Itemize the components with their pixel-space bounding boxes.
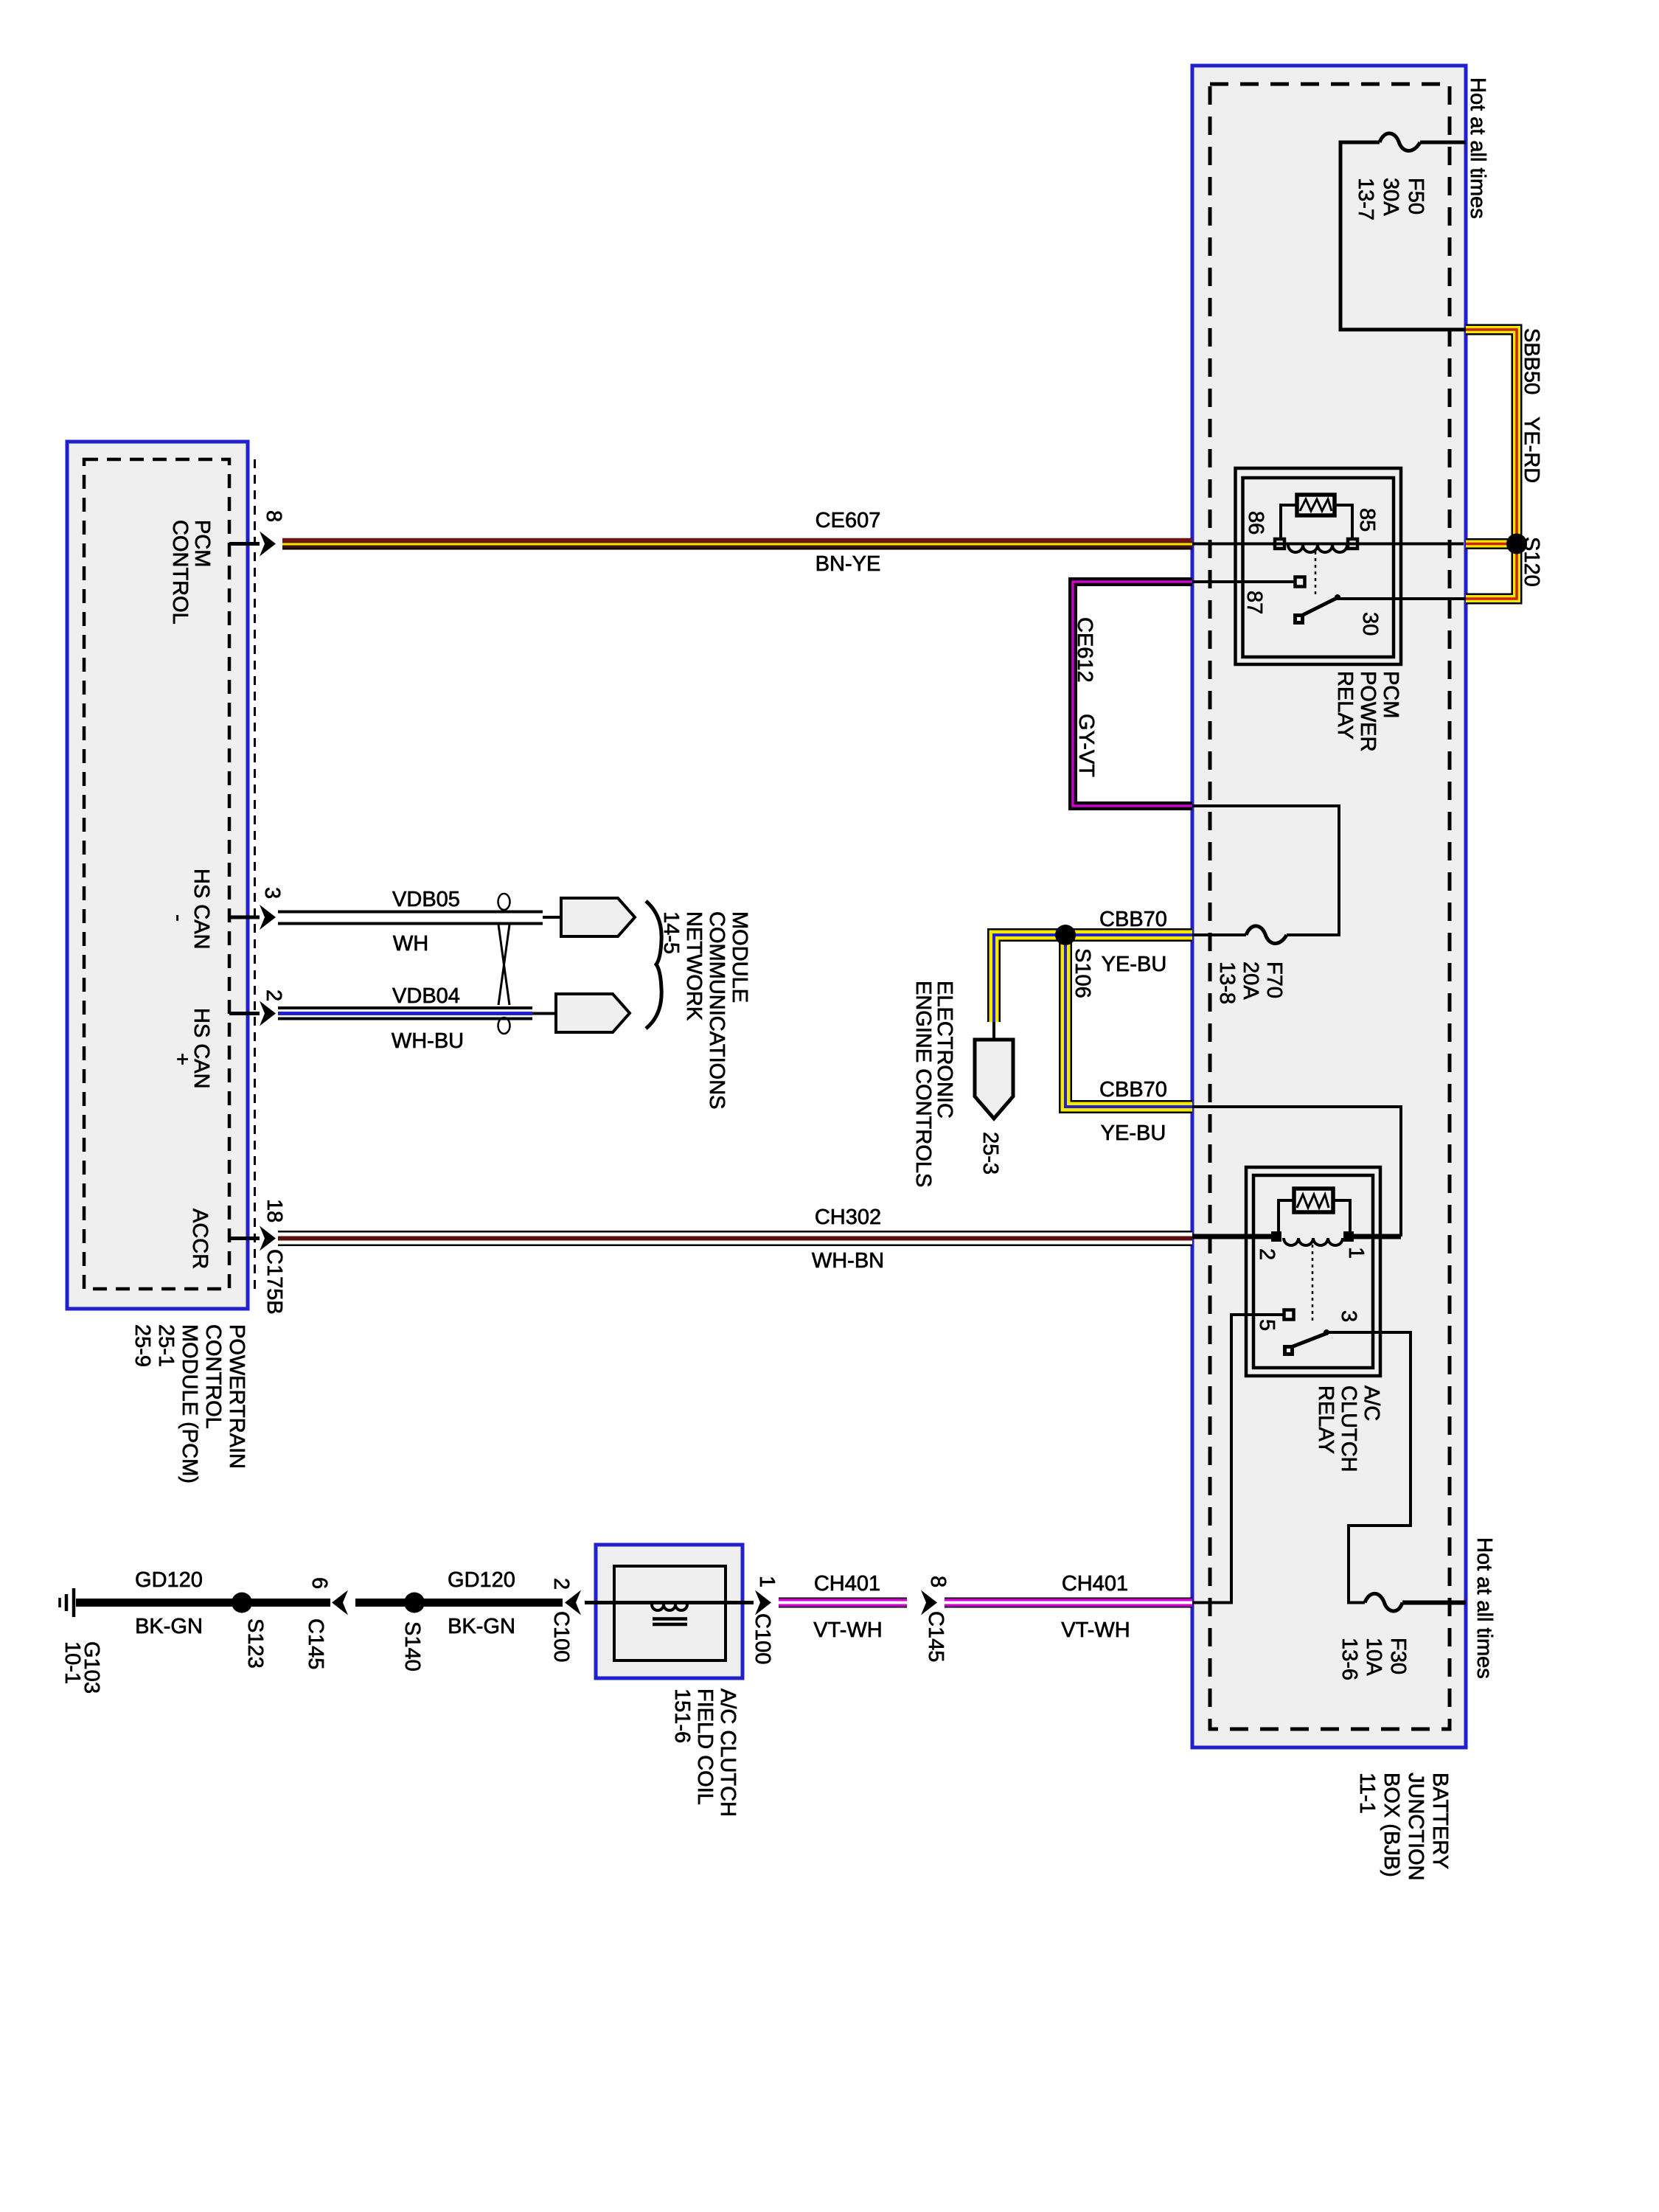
- wire from A/C relay contact 3 to fuse F30: [1326, 1332, 1411, 1603]
- battery junction box BJB: [1192, 66, 1466, 1747]
- brace for module communications network: [646, 901, 661, 1029]
- svg-text:F3010A13-6: F3010A13-6: [1338, 1638, 1410, 1680]
- thin wire through A/C clutch field coil: [585, 1601, 754, 1604]
- PCM pin 2 arrow: [229, 1012, 260, 1015]
- svg-text:5: 5: [1255, 1319, 1279, 1331]
- ground G103 symbol: [60, 1588, 74, 1617]
- fuse F70 element: [1246, 926, 1287, 944]
- connector C100 pin 1 arrow (right): [755, 1590, 771, 1615]
- svg-text:VT-WH: VT-WH: [813, 1618, 882, 1642]
- svg-text:25-3: 25-3: [978, 1132, 1002, 1175]
- svg-text:87: 87: [1242, 591, 1266, 614]
- svg-text:VDB05: VDB05: [392, 888, 460, 911]
- svg-text:YE-BU: YE-BU: [1102, 953, 1167, 976]
- svg-text:S140: S140: [400, 1621, 424, 1672]
- wire from A/C relay contact 5 down to CH401 exit: [1192, 1315, 1284, 1603]
- svg-text:2: 2: [262, 990, 285, 1001]
- svg-text:GY-VT: GY-VT: [1074, 714, 1098, 777]
- wire inside BJB from CE612 to fuse F70: [1192, 806, 1339, 935]
- PCM relay contact 30 arm: [1293, 594, 1340, 625]
- svg-text:BK-GN: BK-GN: [135, 1615, 203, 1638]
- connector C100 pin 2 arrow (left): [565, 1590, 581, 1615]
- svg-text:C100: C100: [751, 1613, 774, 1664]
- PCM pin 18 arrow: [229, 1237, 260, 1240]
- svg-text:GD120: GD120: [448, 1568, 515, 1592]
- svg-text:86: 86: [1244, 511, 1267, 535]
- A/C clutch relay box: [1246, 1167, 1380, 1376]
- svg-text:BK-GN: BK-GN: [448, 1615, 515, 1638]
- wire GD120 BK-GN ground chain: [76, 1599, 563, 1607]
- off-page arrow to module network (VDB04): [556, 994, 630, 1032]
- svg-text:8: 8: [926, 1576, 950, 1587]
- PCM power relay box: [1236, 468, 1402, 664]
- wire VDB05 WH (HS CAN -): [278, 912, 561, 924]
- svg-text:C145: C145: [924, 1611, 947, 1662]
- wire CBB70 YE-BU lower run to S106: [1065, 935, 1192, 1107]
- svg-text:CE607: CE607: [815, 509, 881, 532]
- svg-text:3: 3: [1337, 1310, 1360, 1322]
- PCM relay actuator dashed link: [1315, 552, 1317, 597]
- A/C relay contact 5: [1284, 1310, 1294, 1320]
- svg-text:18: 18: [262, 1199, 286, 1222]
- svg-text:HS CAN: HS CAN: [189, 1008, 213, 1089]
- svg-text:ACCR: ACCR: [188, 1208, 212, 1269]
- wire to relay contact 87 inside BJB: [1192, 580, 1295, 583]
- fuse F30 element: [1365, 1593, 1402, 1611]
- svg-text:85: 85: [1355, 508, 1379, 532]
- svg-text:YE-BU: YE-BU: [1101, 1121, 1166, 1145]
- svg-text:2: 2: [549, 1578, 573, 1590]
- A/C relay coil humps: [1284, 1238, 1343, 1245]
- splice S120: [1506, 534, 1527, 554]
- svg-text:-: -: [167, 914, 190, 922]
- svg-text:VDB04: VDB04: [392, 984, 460, 1008]
- PCM relay coil resistor: [1281, 495, 1352, 539]
- wire inside BJB: relay coil feed to pin 86: [1192, 543, 1464, 546]
- connector C175B dashed line: [254, 459, 256, 1289]
- svg-text:S123: S123: [243, 1618, 267, 1669]
- svg-text:Hot at all times: Hot at all times: [1472, 1537, 1496, 1679]
- A/C clutch field coil box: [596, 1545, 742, 1678]
- wire CH302 WH-BN from PCM pin 18 to BJB: [278, 1231, 1192, 1246]
- PCM pin 8 arrow: [229, 542, 260, 546]
- wire CE612 GY-VT loop outside BJB: [1073, 582, 1192, 806]
- svg-text:8: 8: [262, 510, 285, 522]
- fuse F50 circuit lines: [1340, 142, 1466, 330]
- wire inside BJB lower CBB70 to A/C relay pin 1: [1192, 1107, 1401, 1237]
- svg-text:GD120: GD120: [135, 1568, 203, 1592]
- off-page arrow 25-3 electronic engine controls: [975, 1040, 1013, 1119]
- connector C145 pin 6 arrow (left): [332, 1590, 348, 1615]
- svg-text:BN-YE: BN-YE: [815, 552, 881, 576]
- svg-text:CBB70: CBB70: [1099, 1078, 1167, 1102]
- svg-text:F7020A13-8: F7020A13-8: [1215, 961, 1286, 1004]
- svg-text:WH-BU: WH-BU: [392, 1029, 464, 1053]
- A/C relay contact 3 arm: [1283, 1329, 1329, 1356]
- splice S123: [232, 1593, 252, 1613]
- wire CH401 VT-WH segment 2: [945, 1598, 1192, 1608]
- svg-text:C100: C100: [549, 1611, 573, 1662]
- svg-text:Hot at all times: Hot at all times: [1466, 77, 1489, 219]
- stub to 25-3 arrow: [992, 1022, 995, 1040]
- A/C relay coil resistor: [1279, 1189, 1350, 1231]
- wire SBB50 YE-RD outside BJB with S120 branches: [1466, 330, 1517, 599]
- connector C145 pin 8 arrow (right): [921, 1590, 937, 1615]
- splice S106: [1055, 925, 1076, 945]
- svg-text:CBB70: CBB70: [1099, 908, 1167, 931]
- svg-text:2: 2: [1255, 1248, 1279, 1260]
- A/C relay coil terminals 2 1: [1271, 1231, 1281, 1242]
- PCM relay coil terminals 86 85: [1275, 539, 1284, 549]
- svg-text:1: 1: [755, 1576, 779, 1587]
- svg-text:S106: S106: [1071, 948, 1094, 998]
- svg-text:S120: S120: [1520, 537, 1543, 587]
- svg-text:3: 3: [260, 887, 284, 899]
- svg-text:+: +: [170, 1053, 194, 1065]
- wire CH401 VT-WH segment 1: [779, 1598, 907, 1608]
- svg-text:VT-WH: VT-WH: [1061, 1618, 1130, 1642]
- PCM relay contact 87: [1295, 577, 1305, 587]
- PCM relay coil humps: [1288, 545, 1347, 552]
- svg-text:6: 6: [307, 1577, 331, 1589]
- off-page arrow to module network (VDB05): [561, 898, 635, 936]
- powertrain control module PCM box: [67, 442, 248, 1309]
- fuse F50 element: [1380, 133, 1420, 151]
- PCM pin 3 arrow: [229, 916, 260, 919]
- wire CE607 BN-YE from PCM pin 8 to BJB: [282, 538, 1192, 550]
- wire CBB70 YE-BU upper run to 25-3 branch: [994, 935, 1192, 1022]
- wire inside BJB CH302 to A/C relay coil: [1192, 1234, 1276, 1239]
- svg-text:WH: WH: [393, 932, 428, 956]
- svg-text:SBB50: SBB50: [1520, 328, 1543, 394]
- svg-text:1: 1: [1344, 1247, 1368, 1259]
- svg-text:CH302: CH302: [815, 1206, 881, 1229]
- svg-text:30: 30: [1358, 612, 1382, 636]
- wire VDB04 WH-BU (HS CAN +): [278, 1008, 556, 1019]
- svg-text:WH-BN: WH-BN: [812, 1249, 884, 1273]
- svg-text:HS CAN: HS CAN: [189, 869, 213, 950]
- twisted pair symbol: [498, 894, 510, 1034]
- A/C clutch field coil inductor: [652, 1604, 687, 1624]
- svg-text:C175B: C175B: [262, 1249, 286, 1315]
- svg-text:F5030A13-7: F5030A13-7: [1354, 178, 1427, 220]
- svg-text:CH401: CH401: [1062, 1572, 1128, 1596]
- wire from relay contact 30 to BJB right edge: [1338, 597, 1466, 600]
- svg-text:CH401: CH401: [814, 1572, 880, 1596]
- svg-text:YE-RD: YE-RD: [1520, 417, 1543, 483]
- splice S140: [404, 1593, 425, 1613]
- svg-text:C145: C145: [304, 1618, 327, 1669]
- svg-text:CE612: CE612: [1073, 617, 1096, 683]
- A/C relay actuator dashed link: [1312, 1245, 1314, 1324]
